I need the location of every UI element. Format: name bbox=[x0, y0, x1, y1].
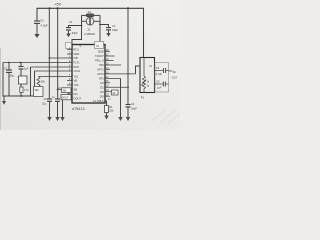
wire crystal right down to IC bbox=[99, 15, 101, 41]
svg-text:33pF: 33pF bbox=[72, 31, 78, 35]
bus corner wire x34.5 bbox=[34, 71, 36, 87]
wire DOUT drop x62.5 bbox=[62, 100, 64, 117]
svg-text:DOUT: DOUT bbox=[62, 97, 69, 100]
node dot bus x20.5 bbox=[20, 62, 22, 64]
capacitor C9 bbox=[42, 98, 52, 117]
wire +5V drop x128 bbox=[127, 8, 129, 104]
wiper arrow bbox=[141, 80, 146, 86]
node dot x81.5 bbox=[81, 25, 83, 27]
+5V power rail bbox=[37, 8, 144, 57]
svg-text:F/B: F/B bbox=[74, 56, 78, 60]
bus corner wire x30.5 bbox=[30, 67, 32, 96]
output coupling box bbox=[155, 63, 169, 93]
svg-text:10µ: 10µ bbox=[42, 103, 47, 106]
svg-text:AFT1: AFT1 bbox=[97, 68, 104, 72]
ground R1 bbox=[104, 116, 108, 120]
svg-text:Y20: Y20 bbox=[74, 83, 79, 87]
node dot rail x49.5 bbox=[48, 7, 50, 9]
IC right pin numbers bbox=[106, 50, 111, 101]
pin 1 label box bbox=[66, 43, 72, 49]
svg-text:10µF: 10µF bbox=[131, 106, 137, 110]
svg-text:aT8413: aT8413 bbox=[72, 107, 85, 111]
svg-text:DO: DO bbox=[74, 92, 78, 96]
svg-text:C7: C7 bbox=[4, 66, 8, 70]
ground C4 bbox=[126, 117, 130, 121]
capacitor C10 bbox=[52, 97, 60, 117]
svg-text:FLT1: FLT1 bbox=[74, 61, 81, 65]
svg-text:D0: D0 bbox=[100, 81, 104, 85]
svg-text:YR1: YR1 bbox=[99, 77, 105, 81]
svg-text:X1: X1 bbox=[87, 27, 91, 31]
IC right pin stubs bbox=[105, 52, 136, 101]
boxed net label right bbox=[112, 90, 119, 95]
svg-text:5k6: 5k6 bbox=[35, 89, 40, 92]
wire branch to C2 bbox=[100, 25, 109, 28]
resistor R4 (small) bbox=[20, 87, 30, 96]
boxed net label DOUT bbox=[61, 95, 71, 100]
zigzag resistor bbox=[143, 76, 146, 93]
svg-text:4.7k: 4.7k bbox=[24, 89, 29, 92]
ground x120.5 bbox=[118, 117, 122, 121]
svg-text:RC0: RC0 bbox=[74, 65, 80, 69]
svg-text:AF: AF bbox=[173, 71, 177, 74]
crystal X1 electrode bar bbox=[89, 18, 91, 25]
svg-text:4.19MHz: 4.19MHz bbox=[84, 32, 96, 36]
IC left pin names bbox=[74, 48, 82, 101]
svg-text:VC01: VC01 bbox=[74, 69, 81, 73]
faint scan smudges bottom right bbox=[152, 109, 180, 124]
crystal X1 body bbox=[86, 18, 94, 26]
svg-text:P1: P1 bbox=[141, 96, 145, 100]
resistor R5 zigzag bbox=[37, 77, 45, 87]
svg-text:C3: C3 bbox=[40, 19, 44, 23]
svg-text:33pF: 33pF bbox=[112, 28, 118, 32]
svg-text:4.7µF: 4.7µF bbox=[41, 24, 48, 28]
capacitor C2 bbox=[106, 24, 118, 33]
IC left pin numbers bbox=[58, 48, 71, 99]
svg-text:C1: C1 bbox=[69, 20, 73, 24]
svg-text:+5V: +5V bbox=[54, 2, 61, 6]
output stub bbox=[169, 70, 173, 72]
wire step into P1 box bbox=[136, 66, 141, 74]
svg-text:BCE: BCE bbox=[98, 50, 104, 54]
left frame wire bbox=[3, 63, 34, 97]
wire crystal left down to IC bbox=[72, 15, 82, 44]
wire crystal left top bbox=[82, 14, 87, 16]
svg-text:T2OUT: T2OUT bbox=[95, 54, 104, 58]
svg-text:D2: D2 bbox=[100, 90, 104, 94]
resistor R3 (box) bbox=[19, 76, 28, 87]
svg-text:OUT: OUT bbox=[172, 76, 178, 79]
paper background bbox=[0, 0, 180, 130]
resistor R1 (box) bbox=[104, 101, 114, 116]
capacitor C5 bbox=[155, 81, 169, 90]
node dot bottom line bbox=[21, 95, 23, 97]
node dot rail x128 bbox=[127, 7, 129, 9]
wire +5V drop x49.5 bbox=[48, 8, 50, 99]
wire crystal left lead bbox=[82, 20, 87, 22]
node dot pin10 wire bbox=[57, 89, 59, 91]
ground left frame bbox=[2, 96, 6, 105]
svg-text:PRL_U: PRL_U bbox=[95, 59, 104, 63]
svg-text:DOUT: DOUT bbox=[74, 97, 82, 101]
wire +5V drop x57.5 bbox=[57, 8, 59, 99]
svg-text:100µ: 100µ bbox=[9, 75, 15, 78]
IC left pin stubs bbox=[3, 50, 72, 99]
capacitor C4 bbox=[126, 102, 138, 117]
svg-text:SB: SB bbox=[74, 88, 78, 92]
ground C1 bbox=[66, 34, 71, 38]
ground C10 bbox=[55, 117, 59, 121]
IC U1 box bbox=[72, 45, 105, 104]
svg-text:1µF: 1µF bbox=[157, 87, 162, 90]
capacitor C3 bbox=[34, 19, 48, 35]
svg-text:VDD: VDD bbox=[74, 52, 80, 56]
node dot x100 bbox=[99, 24, 101, 26]
svg-text:RC1: RC1 bbox=[74, 48, 80, 52]
svg-text:VB: VB bbox=[74, 79, 78, 83]
node dot rail x57.5 bbox=[56, 7, 58, 9]
svg-text:C4: C4 bbox=[131, 102, 135, 106]
node dot x128 step bbox=[127, 73, 129, 75]
svg-text:X1: X1 bbox=[88, 10, 92, 14]
capacitor C6 bbox=[155, 67, 169, 76]
svg-text:4.7µF: 4.7µF bbox=[156, 73, 163, 76]
capacitor C1 bbox=[66, 20, 78, 35]
svg-text:12.7MHz: 12.7MHz bbox=[93, 99, 104, 103]
wire crystal right lead bbox=[94, 20, 100, 22]
node dot bus x9 bbox=[8, 62, 10, 64]
ground C9 bbox=[47, 117, 51, 121]
IC right pin names bbox=[93, 50, 104, 103]
svg-text:C2: C2 bbox=[112, 24, 116, 28]
pin box XTAL1 top right bbox=[95, 42, 104, 49]
ground x62.5 bbox=[60, 117, 64, 121]
crystal X1 capsule bbox=[86, 14, 94, 17]
ground C3 bbox=[34, 34, 39, 38]
svg-text:AF: AF bbox=[112, 92, 116, 95]
svg-text:DO: DO bbox=[100, 94, 104, 98]
wire drop x120.5 bbox=[120, 78, 122, 117]
svg-text:SB: SB bbox=[63, 90, 67, 93]
wire crystal right top bbox=[94, 14, 100, 16]
wire branch to C1 bbox=[69, 26, 82, 28]
capacitor C8 1uF bbox=[19, 63, 29, 77]
component box bottom left bbox=[34, 87, 44, 97]
svg-text:AFT2: AFT2 bbox=[97, 72, 104, 76]
node dot pin3 wire bbox=[49, 57, 51, 59]
potentiometer box P1 bbox=[140, 58, 155, 93]
svg-text:YR0: YR0 bbox=[99, 63, 105, 67]
boxed net label SB bbox=[62, 88, 72, 93]
svg-text:1µF: 1µF bbox=[24, 67, 29, 71]
svg-text:LS: LS bbox=[149, 65, 152, 68]
scan border left bbox=[0, 48, 2, 130]
node dot x128 pin20 bbox=[127, 86, 129, 88]
ground C2 bbox=[106, 33, 110, 37]
capacitor C7 bbox=[4, 63, 15, 97]
svg-text:D1: D1 bbox=[100, 85, 104, 89]
svg-text:Y21: Y21 bbox=[74, 75, 79, 79]
